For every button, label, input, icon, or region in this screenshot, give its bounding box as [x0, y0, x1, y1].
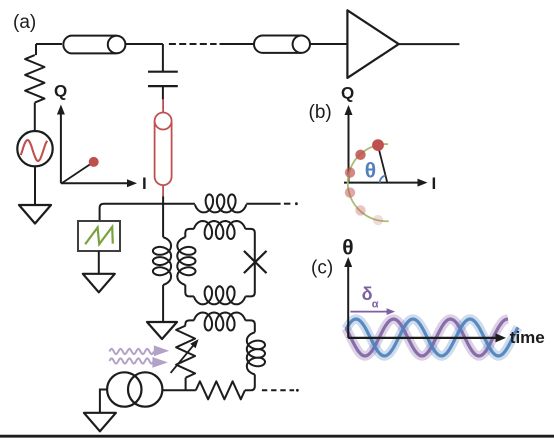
svg-text:time: time — [510, 328, 545, 347]
svg-text:θ: θ — [342, 237, 353, 260]
svg-text:I: I — [432, 174, 437, 193]
svg-text:θ: θ — [365, 160, 376, 183]
svg-text:Q: Q — [54, 82, 67, 101]
svg-text:α: α — [372, 298, 379, 310]
svg-text:(c): (c) — [311, 258, 333, 279]
svg-text:(a): (a) — [13, 12, 36, 33]
svg-text:(b): (b) — [309, 102, 332, 123]
svg-text:I: I — [142, 174, 147, 193]
svg-text:Q: Q — [341, 84, 354, 103]
